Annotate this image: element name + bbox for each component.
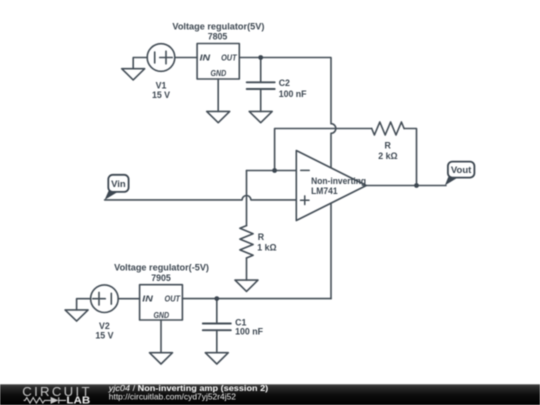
wire inverting input horizontal (247, 170, 297, 172)
svg-text:Voltage regulator(-5V): Voltage regulator(-5V) (114, 262, 209, 272)
ground symbol left of V2 (65, 310, 88, 321)
svg-text:100 nF: 100 nF (279, 89, 307, 99)
svg-text:15 V: 15 V (152, 90, 170, 100)
svg-text:http://circuitlab.com/cyd7yj52: http://circuitlab.com/cyd7yj52r4j52 (109, 392, 236, 402)
svg-text:IN: IN (200, 52, 212, 62)
svg-text:7905: 7905 (151, 273, 171, 283)
footer bar (0, 384, 540, 405)
wire C1 bottom stub (216, 330, 218, 353)
wire C2 top stub (260, 58, 262, 83)
svg-text:V2: V2 (99, 321, 110, 331)
resistor R 1k zigzag (240, 226, 253, 258)
svg-text:Non-inverting: Non-inverting (311, 176, 366, 186)
svg-text:R: R (258, 232, 265, 242)
net flag Vout (445, 162, 475, 186)
svg-text:GND: GND (153, 310, 169, 320)
op-amp plus marker (301, 196, 310, 205)
wire V2 to 7905 IN (118, 298, 140, 300)
voltage regulator 7905 box (140, 285, 183, 320)
ground symbol below C1 (205, 353, 228, 364)
wire -5V rail from 7905 OUT (182, 298, 331, 300)
wire op-amp V- pin down to -5V rail (330, 203, 332, 298)
capacitor C1 (203, 324, 231, 331)
svg-text:R: R (385, 141, 392, 151)
svg-text:V1: V1 (156, 80, 167, 90)
wire Vin to non-inverting input, with hop over vertical wire (105, 196, 297, 200)
svg-text:LM741: LM741 (311, 186, 338, 196)
svg-text:OUT: OUT (221, 52, 237, 62)
svg-text:C2: C2 (279, 78, 290, 88)
svg-text:Voltage regulator(5V): Voltage regulator(5V) (172, 21, 264, 31)
svg-text:7805: 7805 (208, 32, 228, 42)
wire C1 top stub (216, 299, 218, 324)
svg-text:LAB: LAB (66, 395, 90, 405)
ground symbol left of V1 (122, 69, 145, 80)
node junction feedback tap (272, 168, 277, 173)
wire 7805 OUT to +V rail corner, with hop over feedback wire (239, 58, 336, 168)
wire 7805 GND pin to ground (217, 79, 219, 111)
node junction on +5V rail at C2 (258, 55, 263, 60)
wire R 1k bottom to ground (246, 258, 248, 280)
wire V1 left lead to ground (133, 58, 147, 69)
ground symbol below R 1k (235, 280, 258, 291)
op-amp U1 LM741 triangle (296, 151, 366, 221)
wire op-amp output to Vout (366, 185, 446, 187)
svg-text:1 kΩ: 1 kΩ (257, 243, 276, 253)
ground symbol below C2 (249, 111, 272, 122)
wire C2 bottom stub (260, 89, 262, 111)
resistor R 2k zigzag (372, 122, 404, 135)
svg-text:Vin: Vin (111, 179, 126, 190)
svg-text:2 kΩ: 2 kΩ (378, 151, 397, 161)
svg-text:OUT: OUT (165, 294, 181, 304)
svg-text:GND: GND (211, 68, 227, 78)
ground symbol below 7805 (207, 111, 230, 122)
svg-text:15 V: 15 V (95, 330, 113, 340)
svg-text:100 nF: 100 nF (235, 326, 263, 336)
voltage regulator U? 7805 box (197, 44, 239, 80)
svg-text:Vout: Vout (451, 165, 472, 176)
net flag Vin (105, 175, 129, 200)
voltage source V1 (147, 44, 175, 72)
wire V1 to 7805 IN (175, 57, 197, 59)
wire feedback tap up from inverting input (275, 129, 372, 171)
wire 7905 GND pin to ground (160, 320, 162, 353)
op-amp minus marker (301, 169, 310, 171)
voltage source V2 (91, 285, 119, 313)
wire R 2k to output node (404, 129, 416, 186)
wire inverting input down to R 1k (crosses Vin wire) (246, 171, 248, 226)
footer logo diode triangle (51, 397, 59, 404)
svg-text:IN: IN (142, 294, 154, 304)
footer logo resistor+diode glyph (24, 397, 66, 403)
node junction on -5V rail at C1 (214, 296, 219, 301)
ground symbol below 7905 (150, 353, 173, 364)
wire V2 left lead to ground (77, 299, 91, 310)
capacitor C2 (247, 82, 275, 89)
node junction output (414, 183, 419, 188)
